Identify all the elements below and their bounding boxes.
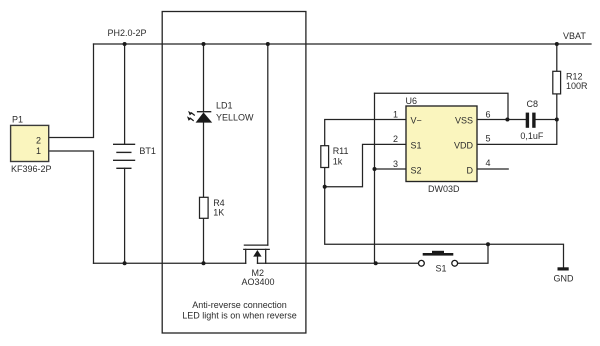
svg-text:AO3400: AO3400 [242, 277, 275, 287]
svg-text:6: 6 [486, 109, 491, 119]
wire R12 top to rail [556, 44, 558, 71]
wire LED branch top [203, 44, 205, 112]
svg-text:R4: R4 [213, 198, 225, 208]
wire battery top [124, 44, 126, 144]
wire source rail to S1 [258, 262, 419, 264]
wire P1 pin2 to top rail [49, 44, 94, 138]
node R11 bottom [323, 185, 327, 189]
wire M2 drain branch [267, 44, 269, 245]
node VBAT/R12 [555, 42, 559, 46]
svg-text:S1: S1 [436, 264, 447, 274]
node VSS left [505, 118, 509, 122]
wire R11 top to U6 pin1 [325, 120, 406, 146]
wire VSS net vertical [374, 93, 376, 263]
wire VSS top loop [375, 93, 509, 119]
LED LD1 [187, 101, 254, 123]
svg-text:D: D [467, 165, 474, 175]
svg-text:R11: R11 [333, 146, 349, 156]
node drain top [266, 42, 270, 46]
node source rail [374, 261, 378, 265]
wire battery bottom [124, 168, 126, 263]
connector P1 [11, 115, 52, 174]
wire R11 bottom to GND [325, 168, 564, 268]
wire S1 right to gnd net [458, 244, 489, 263]
wire top rail VBAT [94, 43, 592, 45]
transistor M2 [244, 245, 269, 263]
wire bottom gate rail [94, 262, 246, 264]
svg-text:LED light is on when reverse: LED light is on when reverse [182, 310, 297, 320]
node battery top [123, 42, 127, 46]
svg-text:DW03D: DW03D [428, 184, 460, 194]
resistor R4 [200, 197, 225, 218]
wire R12 bottom to pin5 [477, 94, 557, 144]
svg-text:3: 3 [393, 159, 398, 169]
svg-text:GND: GND [554, 274, 575, 284]
svg-text:VBAT: VBAT [563, 31, 586, 41]
svg-text:S2: S2 [411, 165, 422, 175]
svg-text:1k: 1k [333, 157, 343, 167]
svg-text:LD1: LD1 [216, 101, 233, 111]
svg-text:1K: 1K [213, 208, 224, 218]
svg-text:4: 4 [486, 158, 491, 168]
svg-text:2: 2 [393, 134, 398, 144]
wire U6 pin4 stub [477, 168, 508, 170]
svg-text:C8: C8 [527, 99, 539, 109]
svg-text:1: 1 [393, 109, 398, 119]
anti-reverse section box [162, 12, 306, 334]
svg-text:VSS: VSS [455, 115, 473, 125]
wire LED to R4 [203, 123, 205, 198]
node LED top [202, 42, 206, 46]
svg-text:P1: P1 [12, 115, 23, 125]
op-amp U6 DW03D [393, 96, 491, 194]
svg-text:YELLOW: YELLOW [216, 113, 254, 123]
node battery bottom [123, 261, 127, 265]
capacitor C8 [520, 99, 544, 141]
svg-text:V−: V− [411, 115, 422, 125]
svg-text:Anti-reverse connection: Anti-reverse connection [192, 300, 287, 310]
wire U6 pin6 to C8 [477, 119, 526, 121]
svg-text:S1: S1 [411, 140, 422, 150]
wire U6 pin2 to R11 bottom node [325, 144, 406, 186]
svg-text:5: 5 [486, 134, 491, 144]
svg-text:R12: R12 [566, 72, 583, 82]
svg-text:PH2.0-2P: PH2.0-2P [108, 28, 147, 38]
wire P1 pin1 to bottom rail [49, 151, 94, 263]
wire C8 to R12 node [536, 119, 557, 121]
wire U6 pin3 stub [375, 168, 407, 170]
switch S1 [419, 251, 458, 274]
svg-text:0,1uF: 0,1uF [520, 131, 544, 141]
svg-text:2: 2 [36, 135, 41, 145]
svg-text:BT1: BT1 [139, 146, 156, 156]
ground [554, 267, 575, 283]
node S1 right [486, 242, 490, 246]
battery BT1 [113, 144, 135, 168]
wire R4 to bottom rail [203, 218, 205, 263]
svg-text:100R: 100R [566, 81, 588, 91]
resistor R12 [553, 71, 588, 94]
node R4 bottom [202, 261, 206, 265]
svg-text:VDD: VDD [454, 140, 474, 150]
svg-text:KF396-2P: KF396-2P [11, 164, 52, 174]
node S2 [373, 167, 377, 171]
node VDD/C8 [555, 118, 559, 122]
svg-text:U6: U6 [406, 96, 418, 106]
resistor R11 [321, 146, 349, 168]
svg-text:1: 1 [36, 146, 41, 156]
